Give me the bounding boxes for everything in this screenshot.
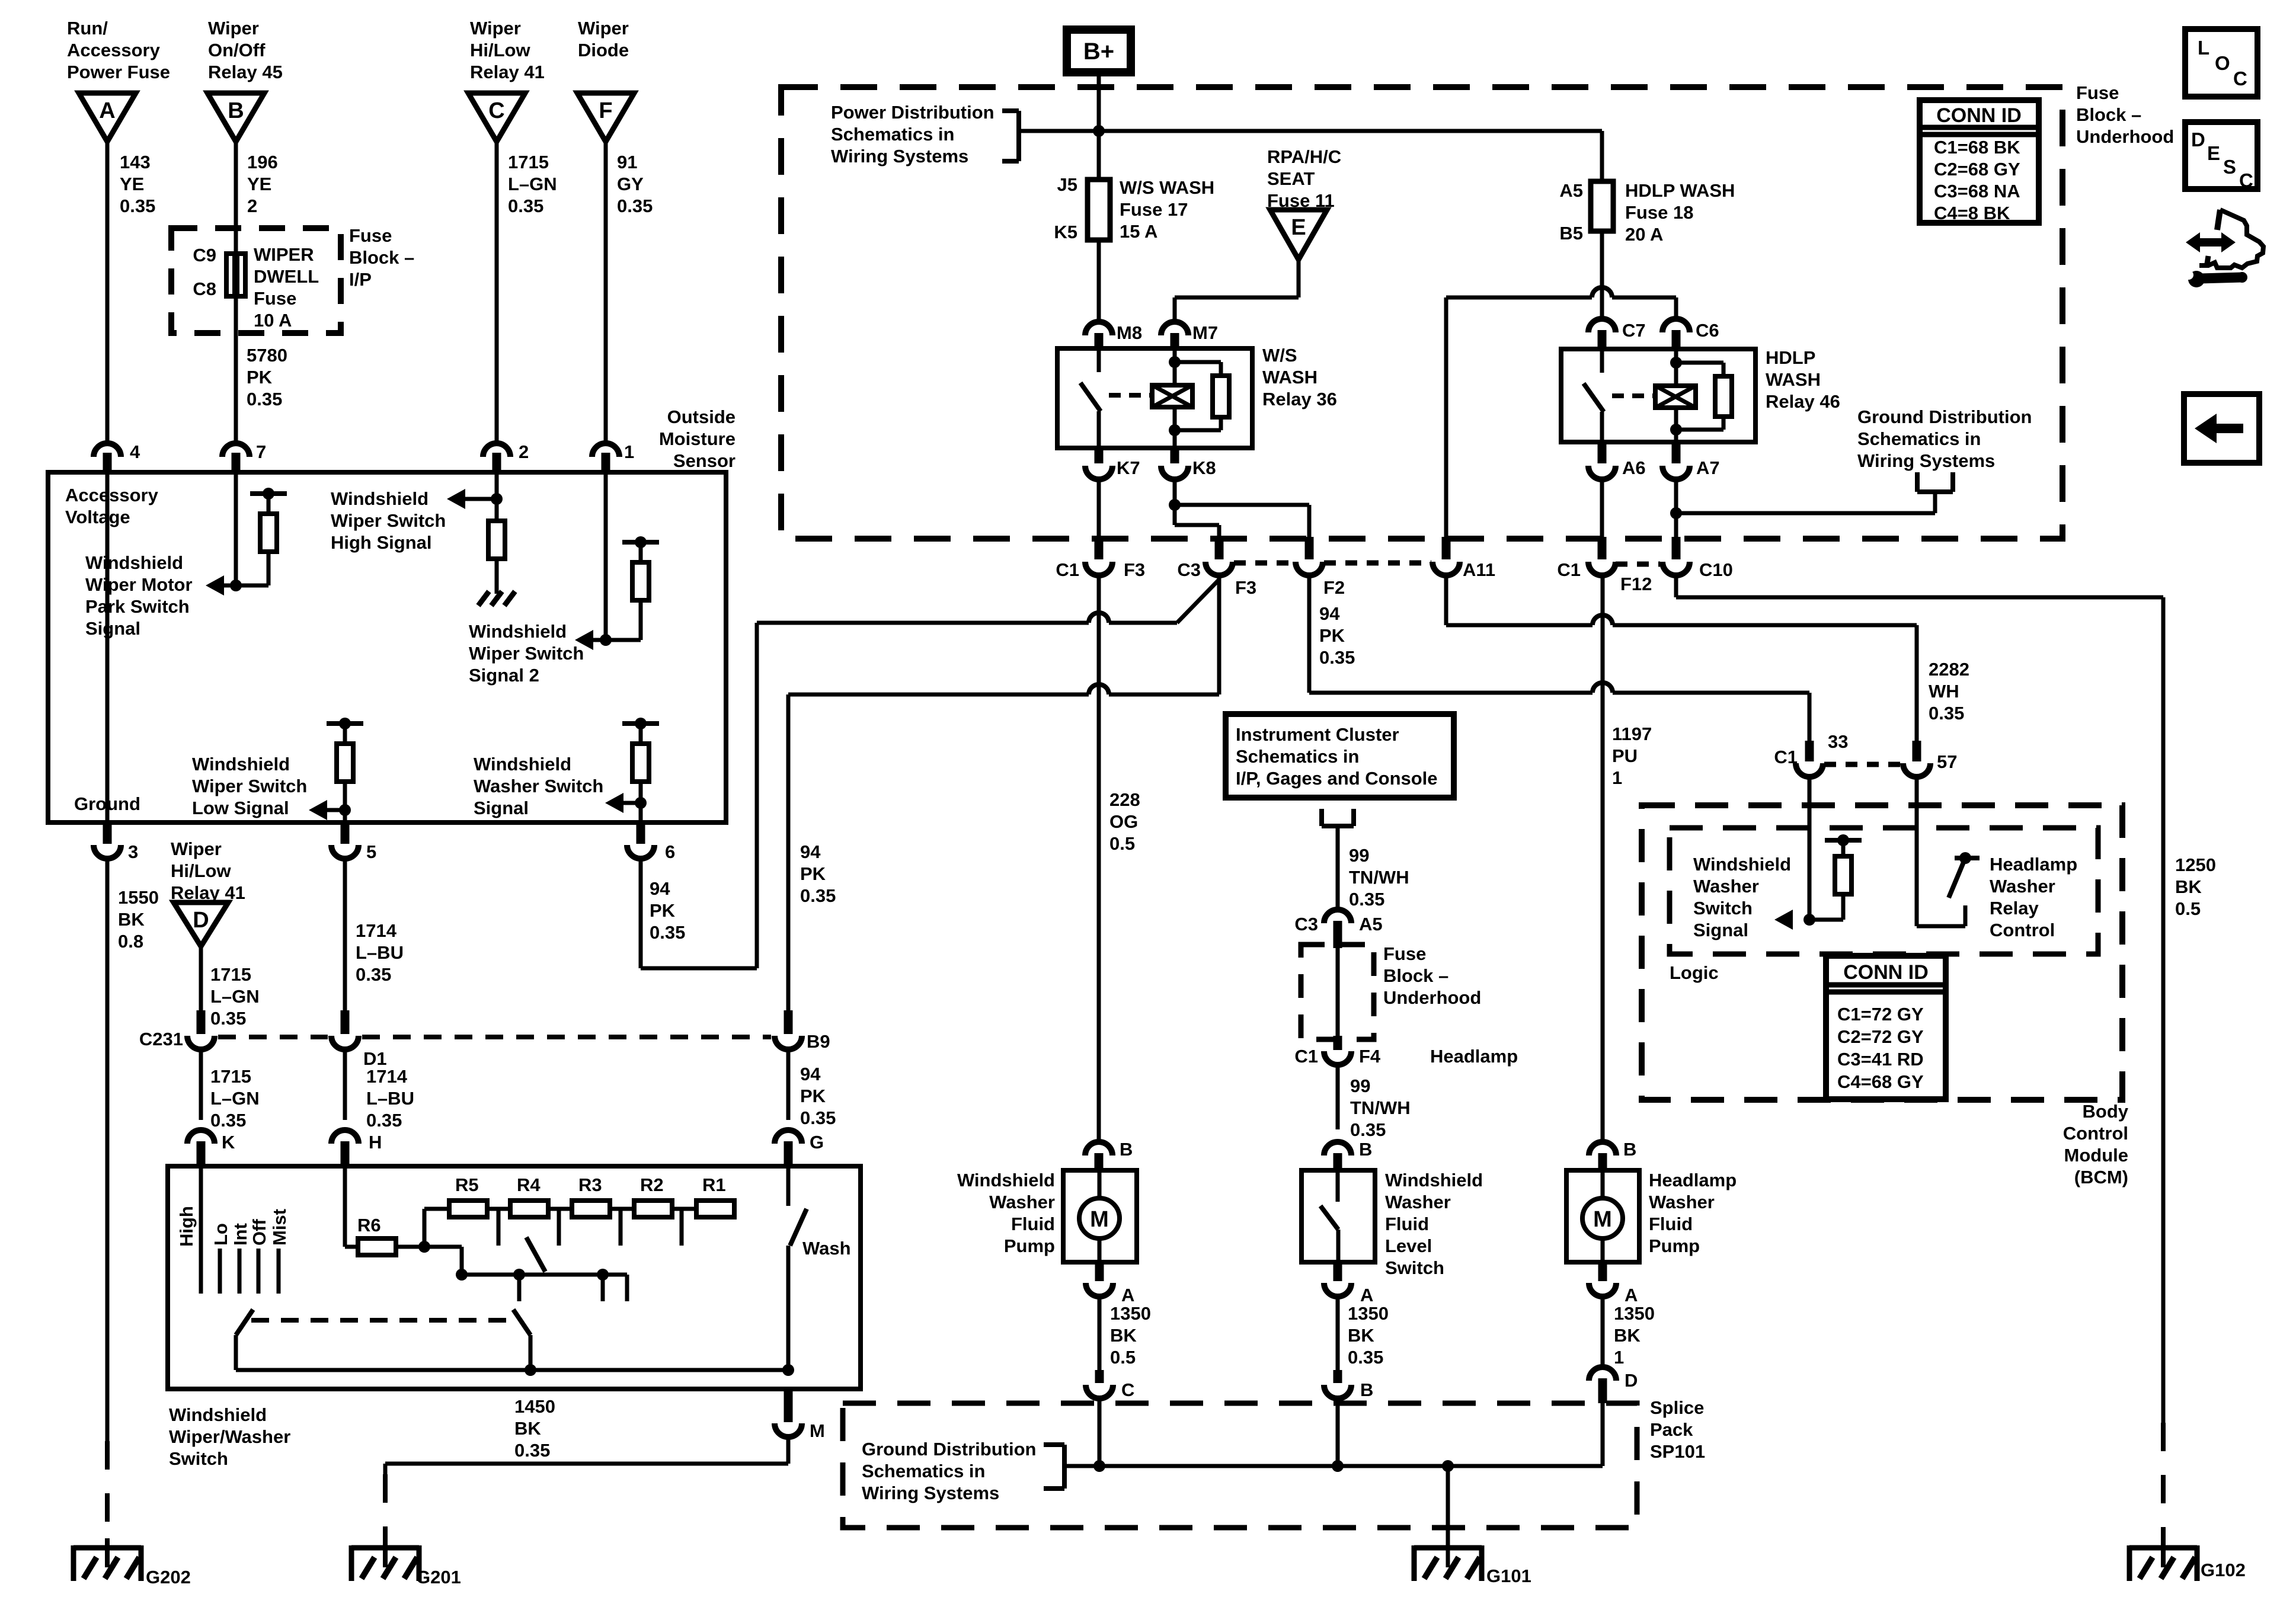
- svg-text:Wash: Wash: [802, 1238, 851, 1259]
- svg-text:0.8: 0.8: [118, 931, 143, 952]
- svg-text:Ground Distribution: Ground Distribution: [1857, 406, 2032, 427]
- svg-text:E: E: [1291, 215, 1306, 240]
- svg-text:D: D: [1625, 1370, 1638, 1391]
- svg-text:C4=8 BK: C4=8 BK: [1934, 203, 2010, 223]
- svg-text:Washer: Washer: [1385, 1192, 1451, 1212]
- svg-text:Signal: Signal: [85, 618, 140, 639]
- svg-text:C2=72 GY: C2=72 GY: [1837, 1026, 1924, 1047]
- svg-text:PK: PK: [800, 863, 826, 884]
- svg-text:2: 2: [247, 196, 257, 216]
- svg-text:5: 5: [366, 841, 376, 862]
- svg-text:G202: G202: [146, 1567, 191, 1587]
- svg-text:Windshield: Windshield: [474, 754, 571, 774]
- svg-text:5780: 5780: [247, 345, 287, 366]
- svg-text:BK: BK: [514, 1418, 541, 1439]
- svg-text:B: B: [1359, 1139, 1372, 1160]
- svg-text:C3: C3: [1177, 559, 1201, 580]
- svg-text:Power Fuse: Power Fuse: [67, 62, 170, 82]
- svg-text:228: 228: [1109, 789, 1140, 810]
- svg-text:20 A: 20 A: [1625, 224, 1663, 245]
- svg-text:Windshield: Windshield: [169, 1404, 267, 1425]
- svg-text:C1=68 BK: C1=68 BK: [1934, 137, 2020, 158]
- svg-text:C3: C3: [1294, 914, 1318, 934]
- svg-text:TN/WH: TN/WH: [1350, 1097, 1411, 1118]
- svg-text:Control: Control: [2063, 1123, 2128, 1144]
- svg-text:1715: 1715: [210, 1066, 251, 1087]
- svg-text:WH: WH: [1929, 681, 1959, 702]
- svg-text:1: 1: [1612, 767, 1622, 788]
- svg-text:Power Distribution: Power Distribution: [831, 102, 994, 123]
- svg-text:Wiring Systems: Wiring Systems: [1857, 450, 1995, 471]
- svg-text:Wiper/Washer: Wiper/Washer: [169, 1426, 290, 1447]
- svg-text:10 A: 10 A: [254, 310, 292, 331]
- svg-text:S: S: [2223, 156, 2236, 178]
- svg-text:R1: R1: [702, 1174, 726, 1195]
- svg-text:M: M: [810, 1420, 825, 1441]
- svg-text:G102: G102: [2201, 1560, 2246, 1580]
- svg-text:C6: C6: [1696, 320, 1719, 341]
- svg-text:Washer: Washer: [989, 1192, 1055, 1212]
- svg-text:K7: K7: [1117, 457, 1140, 478]
- svg-text:PK: PK: [247, 367, 273, 388]
- svg-text:7: 7: [256, 441, 266, 462]
- svg-text:Wiper Switch: Wiper Switch: [192, 776, 307, 796]
- svg-text:A5: A5: [1559, 180, 1583, 201]
- svg-text:WIPER: WIPER: [254, 244, 314, 265]
- svg-text:BK: BK: [118, 909, 145, 930]
- svg-text:G201: G201: [416, 1567, 461, 1587]
- svg-text:0.35: 0.35: [366, 1110, 402, 1131]
- svg-text:Fuse: Fuse: [1383, 943, 1426, 964]
- svg-text:Pump: Pump: [1004, 1235, 1055, 1256]
- svg-text:Windshield: Windshield: [1693, 854, 1791, 875]
- svg-text:Wiper: Wiper: [208, 18, 259, 39]
- svg-text:CONN ID: CONN ID: [1843, 961, 1929, 984]
- svg-text:C: C: [488, 98, 504, 123]
- svg-text:Signal 2: Signal 2: [469, 665, 539, 686]
- svg-text:0.35: 0.35: [356, 964, 391, 985]
- svg-text:1350: 1350: [1614, 1303, 1655, 1324]
- svg-text:1350: 1350: [1348, 1303, 1389, 1324]
- svg-text:94: 94: [1319, 603, 1340, 624]
- svg-text:91: 91: [617, 152, 637, 172]
- svg-text:SEAT: SEAT: [1267, 168, 1315, 189]
- svg-text:R3: R3: [578, 1174, 602, 1195]
- svg-text:0.35: 0.35: [800, 885, 836, 906]
- svg-text:Ground Distribution: Ground Distribution: [862, 1439, 1036, 1459]
- svg-text:PK: PK: [650, 900, 676, 921]
- svg-text:Washer: Washer: [1649, 1192, 1715, 1212]
- svg-text:C3=68 NA: C3=68 NA: [1934, 181, 2020, 201]
- svg-text:G: G: [810, 1132, 824, 1153]
- svg-text:0.35: 0.35: [617, 196, 653, 216]
- svg-text:A: A: [1121, 1285, 1134, 1305]
- svg-text:GY: GY: [617, 174, 644, 194]
- svg-text:BK: BK: [1348, 1325, 1374, 1346]
- svg-text:Windshield: Windshield: [192, 754, 290, 774]
- svg-text:Lo: Lo: [210, 1223, 231, 1246]
- svg-text:A: A: [1360, 1285, 1373, 1305]
- svg-text:F3: F3: [1124, 559, 1145, 580]
- svg-text:B+: B+: [1083, 39, 1114, 65]
- svg-text:Schematics in: Schematics in: [1236, 746, 1359, 767]
- svg-text:F12: F12: [1620, 574, 1652, 594]
- svg-text:Windshield: Windshield: [331, 488, 428, 509]
- svg-text:0.35: 0.35: [1319, 647, 1355, 668]
- svg-text:Diode: Diode: [578, 40, 629, 60]
- svg-text:A11: A11: [1463, 559, 1495, 580]
- svg-text:C1: C1: [1774, 747, 1798, 767]
- svg-text:C1=72 GY: C1=72 GY: [1837, 1004, 1924, 1025]
- svg-text:Wiring Systems: Wiring Systems: [862, 1483, 999, 1503]
- svg-text:Wiper: Wiper: [171, 838, 222, 859]
- svg-text:Block –: Block –: [2076, 104, 2141, 125]
- svg-text:Control: Control: [1990, 920, 2055, 940]
- svg-text:A: A: [99, 98, 115, 123]
- svg-text:D: D: [2191, 129, 2205, 151]
- svg-text:94: 94: [650, 878, 670, 899]
- svg-text:B: B: [1360, 1379, 1373, 1400]
- svg-text:Hi/Low: Hi/Low: [171, 860, 231, 881]
- svg-text:C: C: [1121, 1379, 1134, 1400]
- svg-text:Sensor: Sensor: [673, 450, 736, 471]
- svg-text:Headlamp: Headlamp: [1990, 854, 2077, 875]
- svg-text:YE: YE: [247, 174, 271, 194]
- svg-text:Mist: Mist: [269, 1209, 290, 1246]
- svg-text:57: 57: [1937, 751, 1957, 772]
- svg-text:2282: 2282: [1929, 659, 1969, 680]
- svg-text:C7: C7: [1622, 320, 1646, 341]
- svg-text:Park Switch: Park Switch: [85, 596, 190, 617]
- svg-text:Pack: Pack: [1650, 1419, 1693, 1440]
- svg-text:R6: R6: [357, 1215, 381, 1235]
- svg-text:Run/: Run/: [67, 18, 108, 39]
- svg-text:Signal: Signal: [474, 798, 529, 818]
- svg-text:M8: M8: [1117, 322, 1142, 343]
- svg-text:Washer: Washer: [1990, 876, 2055, 897]
- svg-text:6: 6: [665, 841, 675, 862]
- svg-text:1197: 1197: [1612, 724, 1652, 744]
- svg-text:DWELL: DWELL: [254, 266, 319, 287]
- svg-text:HDLP WASH: HDLP WASH: [1625, 180, 1735, 201]
- svg-text:Fuse: Fuse: [349, 225, 392, 246]
- svg-text:Windshield: Windshield: [1385, 1170, 1483, 1190]
- svg-text:C4=68 GY: C4=68 GY: [1837, 1071, 1924, 1092]
- svg-text:C: C: [2239, 169, 2253, 191]
- svg-text:C231: C231: [139, 1029, 183, 1049]
- svg-text:Underhood: Underhood: [1383, 987, 1481, 1008]
- svg-text:B: B: [1623, 1139, 1636, 1160]
- svg-text:Module: Module: [2064, 1145, 2129, 1166]
- svg-text:0.35: 0.35: [1348, 1347, 1383, 1368]
- svg-text:C3=41 RD: C3=41 RD: [1837, 1049, 1924, 1070]
- svg-text:YE: YE: [120, 174, 144, 194]
- svg-text:C1: C1: [1056, 559, 1079, 580]
- svg-text:Wiper: Wiper: [470, 18, 521, 39]
- svg-text:L–BU: L–BU: [366, 1088, 414, 1109]
- svg-text:Wiper Switch: Wiper Switch: [331, 510, 446, 531]
- svg-text:1715: 1715: [210, 964, 251, 985]
- svg-text:0.35: 0.35: [1349, 889, 1384, 910]
- svg-text:Level: Level: [1385, 1235, 1432, 1256]
- svg-text:94: 94: [800, 841, 821, 862]
- svg-text:Accessory: Accessory: [67, 40, 161, 60]
- svg-text:Low Signal: Low Signal: [192, 798, 289, 818]
- svg-text:1450: 1450: [514, 1396, 555, 1417]
- svg-text:Wiper Switch: Wiper Switch: [469, 643, 584, 664]
- svg-text:99: 99: [1350, 1076, 1370, 1096]
- svg-text:(BCM): (BCM): [2074, 1167, 2128, 1188]
- svg-text:Splice: Splice: [1650, 1397, 1704, 1418]
- svg-text:1714: 1714: [366, 1066, 408, 1087]
- svg-text:I/P, Gages and Console: I/P, Gages and Console: [1236, 768, 1438, 789]
- svg-text:Wiring Systems: Wiring Systems: [831, 146, 968, 167]
- svg-text:J5: J5: [1057, 174, 1077, 195]
- svg-text:Wiper Motor: Wiper Motor: [85, 574, 193, 595]
- svg-text:0.5: 0.5: [1110, 1347, 1136, 1368]
- svg-text:B: B: [228, 98, 244, 123]
- svg-text:Windshield: Windshield: [469, 621, 567, 642]
- svg-text:G101: G101: [1486, 1566, 1531, 1586]
- svg-text:Relay 41: Relay 41: [470, 62, 545, 82]
- svg-text:Fluid: Fluid: [1385, 1214, 1429, 1234]
- svg-text:0.5: 0.5: [2175, 898, 2201, 919]
- svg-text:0.35: 0.35: [247, 389, 282, 409]
- svg-text:Relay 46: Relay 46: [1766, 391, 1840, 412]
- svg-text:Fuse 17: Fuse 17: [1120, 199, 1188, 220]
- svg-text:4: 4: [130, 441, 140, 462]
- svg-text:0.35: 0.35: [514, 1440, 550, 1461]
- svg-text:0.35: 0.35: [1350, 1119, 1386, 1140]
- svg-text:RPA/H/C: RPA/H/C: [1267, 146, 1341, 167]
- svg-text:99: 99: [1349, 845, 1369, 866]
- svg-text:Schematics in: Schematics in: [1857, 428, 1981, 449]
- svg-text:0.35: 0.35: [210, 1110, 246, 1131]
- svg-text:Block –: Block –: [1383, 965, 1448, 986]
- svg-text:Underhood: Underhood: [2076, 126, 2174, 147]
- svg-text:0.35: 0.35: [210, 1008, 246, 1029]
- svg-text:W/S: W/S: [1262, 345, 1297, 366]
- svg-text:K: K: [222, 1132, 235, 1153]
- svg-text:196: 196: [247, 152, 278, 172]
- svg-text:0.35: 0.35: [120, 196, 155, 216]
- svg-text:0.35: 0.35: [1929, 703, 1964, 724]
- svg-text:Switch: Switch: [1385, 1257, 1444, 1278]
- svg-text:Int: Int: [230, 1223, 251, 1246]
- svg-text:M: M: [1090, 1207, 1109, 1232]
- svg-text:1714: 1714: [356, 920, 397, 941]
- svg-text:Headlamp: Headlamp: [1649, 1170, 1737, 1190]
- svg-text:OG: OG: [1109, 811, 1138, 832]
- svg-text:TN/WH: TN/WH: [1349, 867, 1409, 888]
- svg-text:A7: A7: [1696, 457, 1720, 478]
- svg-text:L–BU: L–BU: [356, 942, 404, 963]
- svg-text:0.35: 0.35: [800, 1108, 836, 1128]
- svg-text:BK: BK: [1110, 1325, 1137, 1346]
- svg-text:Washer Switch: Washer Switch: [474, 776, 603, 796]
- svg-text:WASH: WASH: [1262, 367, 1318, 388]
- svg-text:Windshield: Windshield: [85, 552, 183, 573]
- svg-text:High Signal: High Signal: [331, 532, 432, 553]
- svg-text:1350: 1350: [1110, 1303, 1151, 1324]
- svg-text:Headlamp: Headlamp: [1430, 1046, 1518, 1067]
- svg-text:C1: C1: [1294, 1046, 1318, 1067]
- svg-text:33: 33: [1828, 731, 1848, 752]
- svg-text:94: 94: [800, 1064, 821, 1084]
- svg-text:I/P: I/P: [349, 269, 372, 290]
- svg-text:Schematics in: Schematics in: [831, 124, 954, 145]
- svg-text:R2: R2: [640, 1174, 664, 1195]
- svg-text:W/S WASH: W/S WASH: [1120, 177, 1214, 198]
- svg-text:E: E: [2207, 142, 2220, 164]
- svg-text:M: M: [1593, 1207, 1612, 1232]
- svg-text:Fluid: Fluid: [1649, 1214, 1693, 1234]
- svg-text:Block –: Block –: [349, 247, 414, 268]
- svg-text:C9: C9: [193, 245, 216, 265]
- svg-text:1: 1: [1614, 1347, 1624, 1368]
- svg-text:Relay 45: Relay 45: [208, 62, 283, 82]
- svg-text:Accessory: Accessory: [65, 485, 159, 505]
- svg-text:PK: PK: [1319, 625, 1345, 646]
- svg-text:BK: BK: [1614, 1325, 1641, 1346]
- svg-text:Moisture: Moisture: [659, 428, 736, 449]
- svg-text:Relay 36: Relay 36: [1262, 389, 1337, 409]
- svg-text:A5: A5: [1359, 914, 1383, 934]
- svg-text:High: High: [176, 1206, 197, 1247]
- svg-text:Fuse 18: Fuse 18: [1625, 202, 1693, 223]
- svg-text:Wiper: Wiper: [578, 18, 629, 39]
- svg-text:HDLP: HDLP: [1766, 347, 1815, 368]
- svg-text:Switch: Switch: [169, 1448, 228, 1469]
- svg-text:0.5: 0.5: [1109, 833, 1135, 854]
- svg-text:D: D: [193, 908, 209, 933]
- svg-text:A6: A6: [1622, 457, 1646, 478]
- svg-text:Outside: Outside: [667, 406, 736, 427]
- svg-text:F: F: [599, 98, 612, 123]
- svg-text:L–GN: L–GN: [210, 1088, 260, 1109]
- svg-text:Fuse: Fuse: [2076, 82, 2119, 103]
- svg-text:H: H: [369, 1132, 382, 1153]
- svg-text:F3: F3: [1235, 577, 1256, 598]
- svg-text:1250: 1250: [2175, 854, 2216, 875]
- svg-text:PU: PU: [1612, 745, 1638, 766]
- svg-text:1: 1: [624, 441, 634, 462]
- svg-text:M7: M7: [1192, 322, 1218, 343]
- svg-text:WASH: WASH: [1766, 369, 1821, 390]
- svg-text:R5: R5: [455, 1174, 479, 1195]
- svg-text:Fuse: Fuse: [254, 288, 296, 309]
- svg-text:SP101: SP101: [1650, 1441, 1705, 1462]
- svg-text:B: B: [1120, 1139, 1133, 1160]
- svg-text:Fluid: Fluid: [1011, 1214, 1055, 1234]
- svg-text:O: O: [2215, 52, 2230, 74]
- svg-text:On/Off: On/Off: [208, 40, 266, 60]
- svg-text:0.35: 0.35: [508, 196, 543, 216]
- svg-text:Body: Body: [2083, 1101, 2129, 1122]
- svg-text:Washer: Washer: [1693, 876, 1759, 897]
- svg-text:2: 2: [519, 441, 529, 462]
- svg-text:L: L: [2198, 37, 2209, 59]
- svg-text:Logic: Logic: [1670, 962, 1719, 983]
- svg-text:Switch: Switch: [1693, 898, 1753, 918]
- svg-text:Windshield: Windshield: [957, 1170, 1055, 1190]
- svg-text:L–GN: L–GN: [508, 174, 557, 194]
- svg-text:PK: PK: [800, 1086, 826, 1106]
- svg-text:B5: B5: [1559, 223, 1583, 244]
- svg-text:C2=68 GY: C2=68 GY: [1934, 159, 2020, 180]
- svg-text:Off: Off: [249, 1219, 270, 1246]
- svg-text:15 A: 15 A: [1120, 221, 1157, 242]
- svg-text:C10: C10: [1699, 559, 1733, 580]
- svg-text:C: C: [2233, 68, 2247, 89]
- svg-text:1715: 1715: [508, 152, 549, 172]
- svg-text:C1: C1: [1557, 559, 1581, 580]
- svg-text:1550: 1550: [118, 887, 159, 908]
- svg-text:Relay: Relay: [1990, 898, 2039, 918]
- svg-text:BK: BK: [2175, 876, 2202, 897]
- svg-text:B9: B9: [807, 1031, 830, 1052]
- svg-text:Signal: Signal: [1693, 920, 1748, 940]
- svg-text:K5: K5: [1054, 222, 1077, 242]
- svg-text:Schematics in: Schematics in: [862, 1461, 985, 1481]
- svg-text:R4: R4: [517, 1174, 541, 1195]
- svg-text:Hi/Low: Hi/Low: [470, 40, 530, 60]
- svg-text:CONN ID: CONN ID: [1936, 104, 2022, 127]
- svg-text:F2: F2: [1323, 577, 1345, 598]
- svg-text:Voltage: Voltage: [65, 507, 130, 527]
- svg-text:143: 143: [120, 152, 151, 172]
- svg-text:L–GN: L–GN: [210, 986, 260, 1007]
- svg-text:K8: K8: [1192, 457, 1216, 478]
- svg-text:Pump: Pump: [1649, 1235, 1700, 1256]
- svg-text:A: A: [1625, 1285, 1638, 1305]
- svg-text:F4: F4: [1359, 1046, 1381, 1067]
- svg-text:3: 3: [128, 841, 138, 862]
- svg-text:C8: C8: [193, 279, 216, 299]
- svg-text:0.35: 0.35: [650, 922, 685, 943]
- svg-text:Instrument Cluster: Instrument Cluster: [1236, 724, 1399, 745]
